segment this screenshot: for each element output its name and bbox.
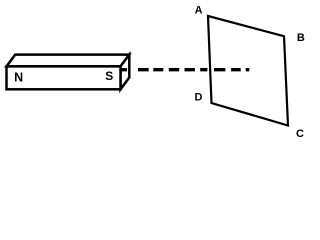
svg-text:D: D	[195, 91, 203, 103]
svg-text:A: A	[195, 5, 203, 17]
svg-text:N: N	[14, 71, 23, 85]
svg-text:B: B	[297, 32, 305, 44]
svg-text:C: C	[296, 128, 304, 140]
svg-text:S: S	[105, 69, 113, 83]
